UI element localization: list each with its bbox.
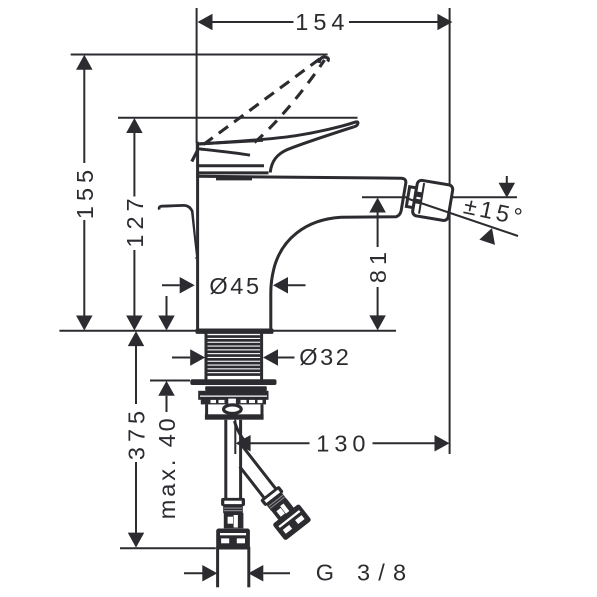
lever solid <box>197 122 358 173</box>
slotted ring <box>201 399 266 405</box>
base plate <box>196 329 274 334</box>
extension line top y54.5 <box>71 54 328 56</box>
arrow left <box>198 14 213 31</box>
pop-up rod <box>159 206 196 259</box>
grip underside <box>198 149 250 156</box>
lever top edge to tip <box>198 122 358 144</box>
dim line 375 <box>135 346 137 404</box>
end nut <box>216 529 250 550</box>
shoulder top and spout arm <box>196 176 406 329</box>
svg-text:G 3/8: G 3/8 <box>316 560 414 586</box>
dim line 154 <box>212 21 294 23</box>
arrow up <box>76 55 93 70</box>
angled supply hose <box>222 439 312 541</box>
body left edge <box>196 143 199 330</box>
lower frame <box>205 404 264 419</box>
threads <box>207 335 260 376</box>
neck <box>223 506 243 513</box>
left end dash <box>192 147 200 162</box>
aerator body <box>412 180 453 221</box>
svg-text:Ø32: Ø32 <box>299 344 351 370</box>
svg-text:127: 127 <box>122 193 148 247</box>
lever left end <box>196 142 199 152</box>
arrow right <box>435 435 450 452</box>
arrow down <box>369 315 386 330</box>
arrow up <box>126 118 142 133</box>
aerator joint marks <box>414 191 422 204</box>
mounting surface line <box>59 330 396 332</box>
dim line <box>250 442 309 444</box>
arrow up to angled line <box>479 225 499 244</box>
upper line with down arrow <box>166 296 168 316</box>
arrow down <box>76 316 93 331</box>
outer dashed edge <box>204 58 321 144</box>
arrow up at surface <box>128 331 145 346</box>
left shaft and arrow <box>184 572 203 574</box>
dimension 375 <box>120 331 216 548</box>
svg-text:81: 81 <box>365 247 391 283</box>
dim line 127 <box>133 133 135 197</box>
collar <box>221 498 245 506</box>
dimension +-15deg <box>406 176 528 245</box>
svg-text:130: 130 <box>316 431 370 457</box>
flange second row <box>205 386 267 391</box>
arrow right <box>437 14 452 31</box>
svg-text:Ø45: Ø45 <box>209 273 261 299</box>
dimension 154 top <box>197 8 453 454</box>
neck <box>267 493 287 511</box>
dimension D45 <box>162 273 306 299</box>
extension line flange top y380.5 <box>150 380 190 382</box>
spout axis line y197.3 <box>362 196 517 198</box>
angled supply hose root <box>235 421 250 447</box>
angled reference line <box>406 198 518 236</box>
fastening nut <box>198 391 268 400</box>
extension line y117.8 <box>118 117 358 119</box>
dimension 127 <box>118 118 358 331</box>
arrow down at hose end <box>128 533 145 548</box>
dimension 130 <box>236 431 450 457</box>
grip thick top <box>198 140 263 144</box>
lever dashed raised position <box>192 57 329 161</box>
cap seam upper <box>196 164 264 167</box>
extension line hose end y548 <box>120 547 216 549</box>
arrow up <box>369 198 386 213</box>
dimension 81 <box>362 197 517 330</box>
extension line left x197 <box>196 8 198 143</box>
svg-text:155: 155 <box>72 165 98 219</box>
threaded shank <box>206 334 262 380</box>
end nut <box>272 504 311 541</box>
dimension G 3/8 <box>184 560 414 586</box>
dimension D32 <box>172 344 351 370</box>
right arrow and shaft <box>248 565 263 582</box>
svg-text:max. 40: max. 40 <box>154 415 180 519</box>
straight supply hose <box>226 420 241 499</box>
mounting flange <box>190 379 276 385</box>
tail pipe <box>216 547 219 588</box>
dimension 155 left <box>71 55 328 331</box>
dim line 155 <box>83 70 85 164</box>
arrow down <box>126 316 142 331</box>
svg-text:154: 154 <box>295 9 349 35</box>
extension line right x449.6 <box>449 8 451 454</box>
dimension max 40 <box>150 296 190 519</box>
body block <box>271 498 296 522</box>
aerator neck <box>406 187 416 208</box>
faucet body outline <box>196 143 406 334</box>
straight hose connector <box>216 498 250 587</box>
olive ellipse <box>224 405 242 414</box>
shank walls <box>205 334 208 380</box>
lever underside sweep <box>270 127 354 173</box>
collar <box>260 485 284 506</box>
tip hook dash <box>319 57 328 63</box>
inner dashed edge <box>255 60 325 143</box>
body block <box>224 513 244 528</box>
arrow down to horizontal line <box>506 176 508 184</box>
lower arrow up <box>158 381 175 396</box>
dim line 81 <box>377 212 379 247</box>
svg-text:375: 375 <box>124 406 150 460</box>
hose walls <box>240 467 265 499</box>
cap seam lower <box>196 171 268 174</box>
arrow left at hose center <box>236 435 251 452</box>
shoulder shade segment <box>216 177 252 180</box>
